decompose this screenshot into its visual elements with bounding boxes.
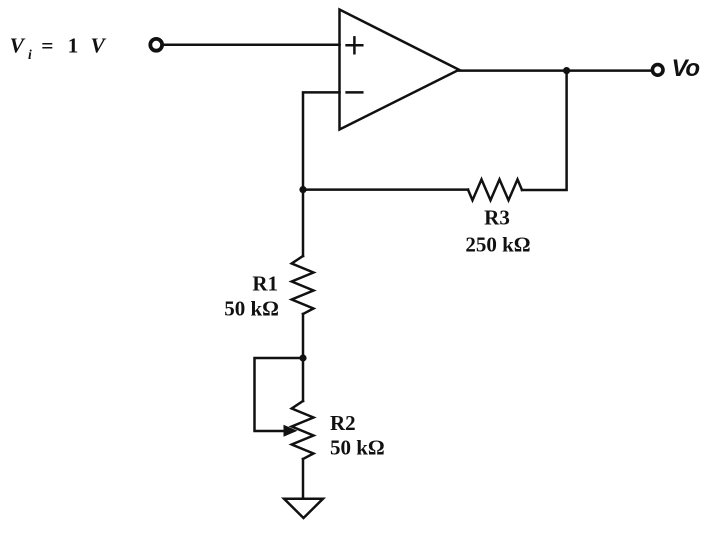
svg-text:Vo: Vo <box>672 55 700 82</box>
svg-text:50 kΩ: 50 kΩ <box>224 297 279 321</box>
svg-text:V: V <box>91 34 107 58</box>
svg-text:R1: R1 <box>252 272 278 296</box>
svg-text:R2: R2 <box>330 411 356 435</box>
svg-text:i: i <box>28 47 32 62</box>
svg-text:=: = <box>41 34 53 58</box>
svg-text:V: V <box>10 34 26 58</box>
svg-text:50 kΩ: 50 kΩ <box>330 436 385 460</box>
svg-text:1: 1 <box>68 34 79 58</box>
svg-text:250 kΩ: 250 kΩ <box>465 233 530 257</box>
svg-text:R3: R3 <box>484 206 510 230</box>
